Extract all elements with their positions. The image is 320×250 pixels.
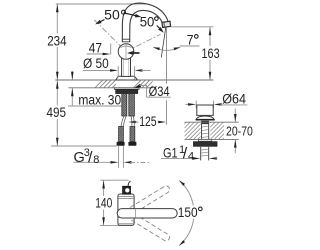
deck hatching left of faucet: [95, 80, 120, 87]
drain flange rim: [196, 119, 215, 120]
dimension 495 line lower: [56, 119, 58, 146]
water stream line upper: [166, 27, 168, 83]
label O34 leader arrow: [135, 84, 141, 88]
drain deck top line: [185, 121, 239, 123]
spout top view: [117, 209, 177, 218]
joystick ball: [118, 44, 134, 60]
dimension 2070 arrow up: [234, 140, 237, 148]
swivel arc lower: [179, 219, 193, 246]
label G38 right tail: [130, 162, 150, 164]
faucet body top view: [118, 194, 134, 225]
dimension 163 line upper: [209, 27, 211, 46]
supply hose lower left: [119, 127, 124, 142]
svg-text:Ø34: Ø34: [149, 84, 170, 99]
hose end reference line: [51, 145, 117, 147]
dimension 47 ball arrow: [127, 51, 134, 55]
lever pin mark: [128, 181, 130, 187]
dimension 140 arrow up: [102, 181, 105, 189]
dimension max30 upper line: [71, 71, 73, 80]
dimension 125 arrow left: [128, 121, 136, 124]
svg-text:234: 234: [47, 32, 67, 48]
lever head top view: [123, 186, 131, 194]
svg-text:47: 47: [89, 40, 102, 56]
drain plug cap: [197, 105, 213, 115]
label O34 leader line: [140, 85, 147, 97]
svg-text:20-70: 20-70: [226, 124, 253, 139]
mounting washer: [114, 88, 139, 90]
water stream line lower: [166, 100, 168, 124]
7deg underline: [180, 45, 200, 47]
svg-text:140: 140: [95, 195, 112, 211]
spout outer curve: [122, 3, 170, 42]
stream 7deg slant line: [161, 27, 166, 57]
dimension 2070 bottom line: [234, 140, 236, 153]
dimension 163 line lower: [209, 60, 211, 80]
label degree circle first: [122, 10, 126, 14]
dimension 163 arrow down: [209, 72, 212, 80]
drain O64 arrow left: [188, 103, 196, 106]
dimension 47 line: [87, 53, 105, 55]
svg-text:50: 50: [140, 13, 155, 29]
dimension 140 arrow down: [102, 217, 105, 225]
dimension 140 line upper: [103, 180, 105, 195]
dimension max30 arrow down: [71, 72, 74, 80]
dimension 47 ball tail: [133, 52, 140, 54]
dimension O50 right tail: [141, 69, 151, 71]
svg-text:495: 495: [47, 104, 67, 120]
faucet base flange: [116, 76, 138, 80]
hose connector left: [117, 142, 125, 146]
supply hose upper left: [122, 94, 127, 116]
dimension 47 ext line: [110, 44, 112, 55]
drain plug flange: [196, 116, 214, 119]
label O34 underline: [147, 96, 171, 98]
label G114 right tail: [215, 157, 217, 159]
drain O64 ext right: [213, 101, 215, 109]
svg-text:8: 8: [93, 154, 99, 166]
deck hatching right of faucet: [134, 80, 159, 87]
dimension 125 line right: [158, 121, 161, 123]
mousseur outlet: [162, 21, 171, 27]
swivel arc arrow top: [179, 181, 185, 186]
dimension O50 underline: [83, 69, 112, 71]
lever axis line up-right: [126, 34, 161, 51]
drain tailpipe: [201, 147, 209, 161]
dimension 140 bottom ext: [100, 224, 120, 226]
faucet column inner shading: [122, 58, 124, 76]
swivel arc arrow bottom: [179, 240, 185, 245]
dimension 163 arrow up: [209, 27, 212, 35]
thread ext line right: [122, 146, 124, 168]
leader 50deg horizontal line: [124, 13, 138, 16]
deck bottom line left: [68, 87, 115, 89]
dimension 234 line lower: [56, 47, 58, 80]
leader 50deg second arrow: [158, 27, 164, 33]
dimension 495 line upper: [56, 80, 58, 105]
dimension 234 arrow up: [56, 4, 59, 12]
hose break left: [121, 116, 126, 127]
body top inner line: [118, 195, 134, 197]
label G114 underline: [161, 157, 195, 159]
lever axis line up-left: [94, 20, 126, 52]
lever head circle: [125, 188, 129, 192]
spout inner curve: [130, 10, 162, 41]
hose connector right: [128, 142, 136, 146]
drain stem: [202, 124, 209, 140]
svg-text:Ø 50: Ø 50: [83, 56, 109, 71]
dimension 2070 arrow down: [234, 114, 237, 122]
drain deck hatching left: [165, 122, 215, 139]
dimension O50 right ext: [133, 66, 135, 79]
dimension O50 left ext: [117, 66, 119, 77]
label max. 30 underline: [68, 105, 124, 107]
dimension 234 arrow down: [56, 72, 59, 80]
drain O64 arrow right: [214, 103, 222, 106]
7deg arc right arrow: [174, 47, 180, 50]
drain deck bottom line: [185, 138, 239, 140]
leader 50deg horizontal arrow: [135, 14, 141, 18]
7deg arc left arrow: [154, 47, 160, 50]
drain O64 line right: [220, 104, 247, 106]
drain deck hatching right: [194, 122, 240, 139]
leader 50deg second line: [157, 26, 162, 31]
deck bottom line right: [134, 87, 153, 89]
supply hose upper right: [129, 94, 135, 116]
dimension 234 line upper: [56, 4, 58, 34]
swivel arc upper: [179, 181, 193, 206]
dimension O50 left arrow: [110, 69, 118, 72]
label G38 arrow left: [111, 161, 119, 164]
dimension 47 arrow: [103, 53, 111, 56]
drain stem threads: [202, 125, 208, 128]
drain tailpipe threads: [201, 148, 208, 151]
mounting deck top line: [55, 79, 213, 81]
body bottom inner line: [118, 223, 134, 225]
svg-text:max. 30: max. 30: [78, 92, 121, 107]
dimension 125 arrow right: [158, 121, 166, 124]
spout collar joint: [122, 38, 130, 40]
swivel position dashed lower: [130, 213, 171, 242]
dimension 140 top ext: [100, 179, 128, 181]
label G114 arrow right: [209, 157, 217, 160]
dimension 140 line lower: [103, 210, 105, 226]
label G114 arrow left: [192, 157, 200, 160]
hose break right: [131, 116, 134, 127]
drain O64 dim line left: [185, 103, 190, 105]
dimension 495 arrow down: [56, 138, 59, 146]
svg-text:G1: G1: [163, 145, 178, 161]
dimension max30 lower line: [71, 88, 73, 106]
dimension O50 right arrow: [135, 69, 143, 72]
label G38 arrow right: [124, 161, 132, 164]
svg-text:Ø64: Ø64: [222, 92, 246, 107]
svg-text:125: 125: [139, 113, 157, 129]
label G38 underline: [74, 161, 113, 163]
leader 50deg first arrow: [95, 20, 101, 25]
dimension 495 arrow up: [56, 81, 59, 89]
ball detail: [121, 46, 132, 48]
label degree circle second: [155, 17, 159, 21]
svg-text:50: 50: [104, 6, 120, 22]
drain washer: [198, 139, 211, 141]
dimension max30 arrow up: [71, 88, 74, 96]
svg-text:4: 4: [188, 151, 194, 163]
label degree circle 150: [199, 207, 203, 211]
dimension 2070 top line: [234, 109, 236, 122]
dimension 163 ext line: [171, 26, 214, 28]
leader 50deg first line: [98, 20, 105, 24]
dimension 234 top extension line: [56, 3, 146, 5]
faucet column: [122, 57, 131, 76]
mounting nut: [116, 89, 138, 93]
svg-text:150: 150: [178, 204, 198, 220]
swivel position dashed upper: [130, 185, 171, 214]
drain seal collar: [201, 121, 209, 124]
supply hose lower right: [130, 127, 135, 142]
dimension 125 line left: [135, 121, 139, 123]
drain O64 ext left: [195, 101, 197, 109]
drain locknut: [193, 142, 217, 147]
label degree circle 7: [195, 35, 199, 39]
svg-text:7: 7: [187, 31, 194, 47]
7deg arc: [153, 47, 180, 50]
thread ext line left: [118, 146, 120, 168]
svg-text:163: 163: [202, 45, 220, 61]
